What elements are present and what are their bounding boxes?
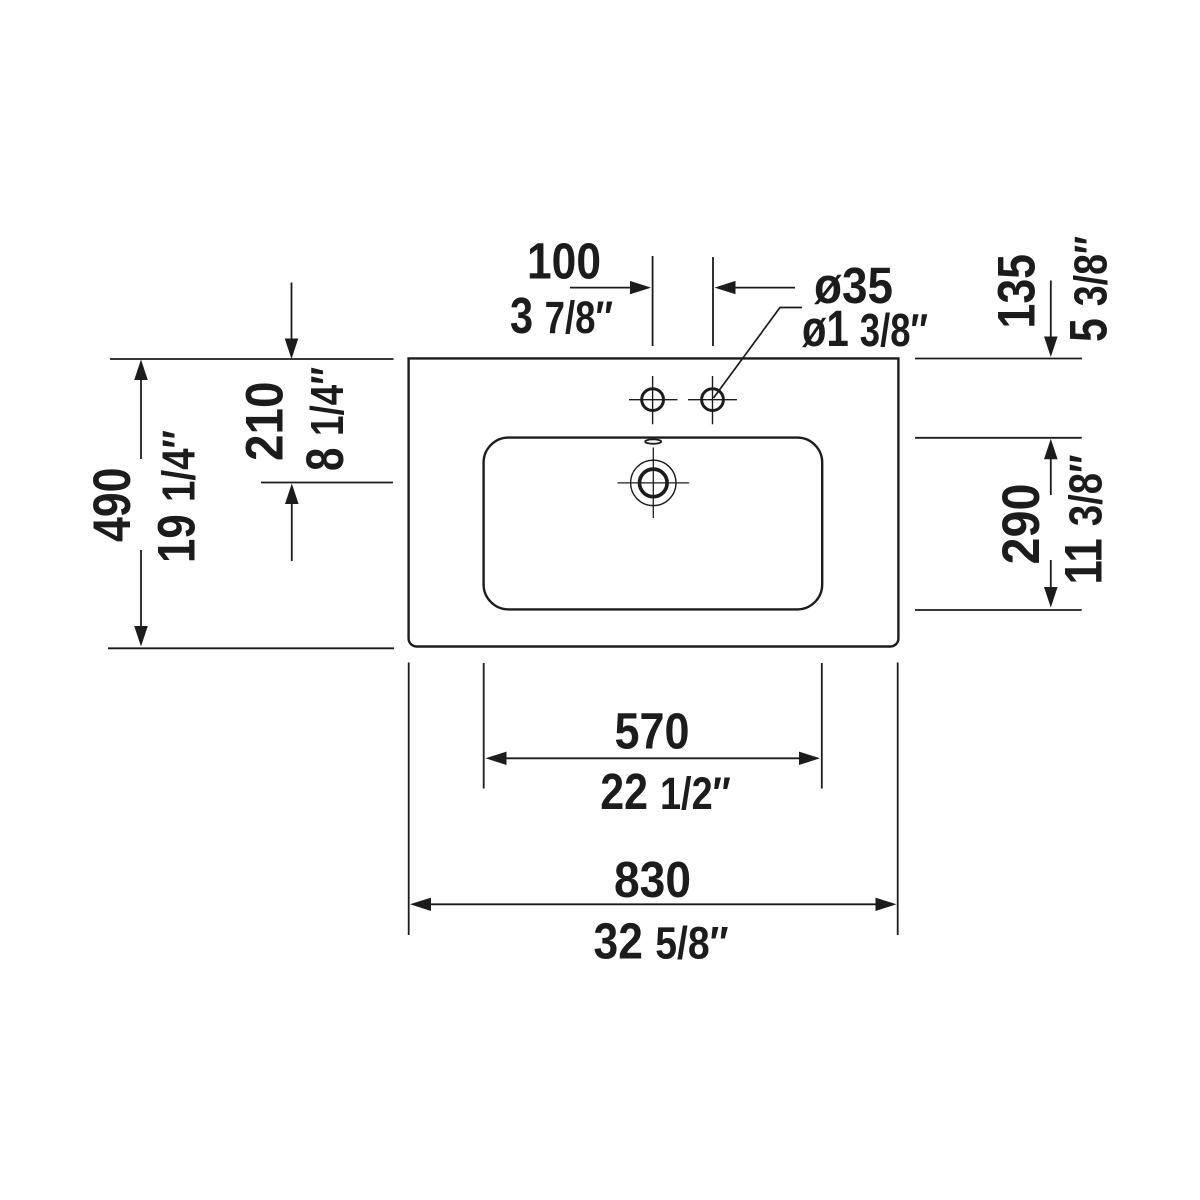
svg-text:100: 100 — [527, 233, 601, 290]
arrowhead 100 right (points left) — [715, 281, 736, 294]
svg-text:490: 490 — [83, 468, 142, 543]
dim 100: extension tick right hole — [712, 257, 714, 346]
svg-text:22 1/2″: 22 1/2″ — [600, 763, 731, 820]
svg-text:32 5/8″: 32 5/8″ — [594, 913, 729, 970]
dim 100: extension tick left hole — [652, 256, 654, 346]
dim 830: extension line basin left — [408, 663, 410, 936]
svg-text:3 7/8″: 3 7/8″ — [510, 287, 613, 344]
arrowhead 490 top (points up) — [134, 360, 148, 381]
dim 490/830: reference line bottom left — [108, 647, 394, 649]
svg-text:210: 210 — [236, 382, 295, 462]
dim 100: right arrow line — [735, 287, 795, 289]
arrowhead 830 left (points left) — [410, 898, 431, 911]
dim 490: reference line top left — [110, 358, 394, 360]
dim 100: left arrow line — [570, 287, 632, 289]
dim 290: upper arrow tail — [1050, 459, 1052, 495]
svg-text:8 1/4″: 8 1/4″ — [296, 367, 355, 471]
svg-text:19 1/4″: 19 1/4″ — [148, 430, 207, 563]
arrowhead 210 bottom (points up) — [285, 484, 299, 505]
arrowhead 290 bottom (points down) — [1044, 587, 1058, 608]
dim 570: extension line bowl right — [821, 663, 823, 789]
dim 210: lower arrow tail — [291, 503, 293, 561]
dim 210: reference line at drain center — [261, 482, 393, 484]
dim 135: arrow tail — [1050, 281, 1052, 341]
dim 830: extension line basin right — [897, 663, 899, 936]
arrowhead 290 top (points up) — [1044, 439, 1058, 460]
drain crosshair — [618, 448, 690, 519]
dim 570: extension line bowl left — [483, 663, 485, 789]
dim 290: reference line bowl bottom — [915, 609, 1082, 611]
arrowhead 135 (points down) — [1044, 337, 1058, 358]
dim 490: lower tail — [140, 550, 142, 627]
svg-text:ø1 3/8″: ø1 3/8″ — [802, 300, 928, 357]
svg-text:5 3/8″: 5 3/8″ — [1060, 236, 1119, 342]
svg-text:570: 570 — [615, 703, 690, 760]
faucet hole right crosshair — [688, 376, 737, 424]
leader line to faucet hole — [714, 308, 803, 399]
dim 290: lower arrow tail — [1050, 560, 1052, 587]
overflow slot — [645, 439, 661, 443]
svg-text:830: 830 — [614, 851, 691, 908]
faucet hole left crosshair — [629, 376, 678, 424]
dim 135: reference line top right — [915, 358, 1082, 360]
dim 490: upper tail — [140, 380, 142, 460]
faucet hole right — [702, 389, 724, 411]
arrowhead 830 right (points right) — [876, 898, 897, 911]
arrowhead 210 top (points down) — [285, 339, 299, 360]
bowl outline — [484, 438, 823, 610]
arrowhead 100 left (points right) — [630, 281, 651, 294]
arrowhead 570 right (points right) — [799, 752, 820, 765]
dim 570: dimension line — [504, 757, 801, 759]
drain inner circle — [640, 469, 668, 497]
svg-text:135: 135 — [988, 254, 1047, 329]
svg-text:11 3/8″: 11 3/8″ — [1055, 455, 1114, 585]
dim 830: dimension line — [428, 903, 878, 905]
drain outer circle — [631, 460, 676, 505]
arrowhead 490 bottom (points down) — [134, 626, 148, 647]
arrowhead 570 left (points left) — [486, 752, 507, 765]
dim 290: reference line bowl top — [915, 437, 1082, 439]
svg-text:290: 290 — [992, 484, 1051, 565]
dim 210: upper arrow tail — [291, 283, 293, 342]
faucet hole left — [642, 389, 664, 411]
basin outline — [409, 358, 899, 646]
